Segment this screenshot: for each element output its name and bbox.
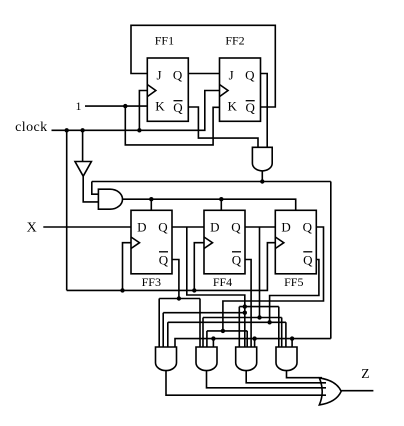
- junction dot: enable B: [211, 336, 215, 340]
- junction dot: 1-line tap: [123, 104, 127, 108]
- wire: clock to inverter input: [82, 130, 84, 161]
- wire: clock rail riser FF3: [123, 243, 132, 291]
- wire: gate D output to OR: [287, 370, 323, 377]
- AND gate U1 (clock gating, horizontal): [98, 189, 122, 209]
- clock edge triangle FF4: [204, 237, 213, 249]
- wire: FF5.Q row to gates B,C: [207, 331, 247, 347]
- wire: AND U1 output gated-clock row to FF3/FF4/FF5 tops: [123, 199, 296, 210]
- wire: clock rail under D flip-flops: [67, 243, 276, 291]
- svg-text:FF4: FF4: [213, 275, 232, 289]
- wire: FF4.Q tap down to row: [259, 227, 261, 318]
- svg-text:1: 1: [76, 99, 82, 113]
- svg-text:FF1: FF1: [155, 34, 174, 48]
- svg-text:K: K: [228, 98, 238, 113]
- wire: FF4.Qbar down to gate C: [245, 260, 251, 348]
- AND gate C (output logic): [236, 347, 257, 371]
- inverter (clock): [75, 162, 91, 177]
- wire: right trunk from U2 output row down: [330, 182, 332, 339]
- svg-text:X: X: [27, 221, 37, 236]
- junction dot: clock rail FF4: [192, 288, 196, 292]
- junction dot: enable C: [252, 336, 256, 340]
- wire: gate C output to OR: [246, 370, 326, 382]
- wire: clock drop to clock rail: [66, 130, 68, 290]
- svg-text:Q: Q: [231, 220, 241, 235]
- svg-text:Q: Q: [303, 220, 313, 235]
- wire: clock rail riser FF4: [194, 243, 204, 291]
- svg-text:D: D: [281, 220, 290, 235]
- svg-text:Q: Q: [158, 220, 168, 235]
- svg-text:K: K: [155, 98, 165, 113]
- wire: constant 1 to FF2.K: [125, 106, 219, 145]
- wire: FF4.Q row to gates B,D: [203, 318, 282, 348]
- junction dot: clock rail FF3: [120, 288, 124, 292]
- svg-text:Q: Q: [159, 253, 169, 268]
- junction dot: clock tap FF1: [137, 128, 141, 132]
- wire: FF5.Qbar reroute down: [270, 260, 319, 323]
- wire: FF5.Qbar row to gates A,D: [168, 322, 286, 347]
- wire: constant 1 to FF1.K: [85, 105, 147, 107]
- AND gate B (output logic): [196, 347, 217, 371]
- wire: AND U2 output distribution row: [92, 171, 331, 194]
- junction dot: gated clock FF4: [219, 197, 223, 201]
- wire: gate A output to OR: [166, 370, 326, 395]
- wire: FF3.Q to FF4.D: [172, 226, 204, 228]
- svg-text:Q: Q: [173, 68, 183, 83]
- junction dot: enable D: [290, 336, 294, 340]
- clock edge triangle FF5: [275, 237, 284, 249]
- junction dot: gated clock FF3: [149, 197, 153, 201]
- wire: FF2.Q to AND U2 input: [261, 74, 268, 148]
- AND gate U2 (state decode, vertical): [252, 147, 272, 171]
- svg-text:FF5: FF5: [284, 275, 303, 289]
- junction dot: FF3.Qbar fan: [177, 296, 181, 300]
- flip-flop FF4 box: [204, 210, 245, 273]
- wire: X input to FF3.D: [43, 226, 131, 228]
- junction dot: row S: [243, 311, 247, 315]
- svg-text:Q: Q: [303, 253, 313, 268]
- junction dot: FF5.Q row: [221, 329, 225, 333]
- svg-text:Q: Q: [173, 100, 183, 115]
- wire: row Q to gates C,D: [239, 307, 278, 347]
- junction dot: clock tap A: [65, 128, 69, 132]
- junction dot: U2 output: [260, 179, 264, 183]
- wire: FF5.Q down and left (row P): [223, 227, 324, 331]
- svg-text:clock: clock: [15, 120, 47, 135]
- wire: clock riser to FF1 clock: [139, 91, 147, 131]
- wire: OR output Z: [341, 390, 373, 392]
- junction dot: clock tap B: [80, 128, 84, 132]
- svg-text:D: D: [210, 220, 219, 235]
- wire: enable row to output AND gates: [175, 339, 331, 347]
- junction dot: row Q: [243, 304, 247, 308]
- wire: inverter output to AND U1 input: [83, 176, 98, 202]
- flip-flop FF3 box: [131, 210, 172, 273]
- clock edge triangle FF2: [220, 85, 229, 97]
- svg-text:Q: Q: [232, 253, 242, 268]
- wire: gate B output to OR: [207, 370, 327, 387]
- svg-text:Z: Z: [361, 366, 369, 381]
- wire: FF4.Q to FF5.D: [245, 226, 275, 228]
- wire: FF3.Qbar down to fan row: [172, 260, 179, 299]
- flip-flop FF1 box: [147, 58, 188, 121]
- wire: row S to gate A input 2: [163, 313, 245, 347]
- wire: clock input line: [52, 91, 220, 131]
- svg-text:J: J: [229, 68, 234, 83]
- svg-text:D: D: [137, 220, 146, 235]
- junction dot: FF4.Q row: [257, 315, 261, 319]
- junction dot: FF5.Qbar row: [267, 320, 271, 324]
- wire: FF1.Q to FF2.J: [188, 73, 219, 75]
- svg-text:J: J: [156, 68, 161, 83]
- AND gate A (output logic): [156, 347, 177, 371]
- flip-flop FF5 box: [275, 210, 316, 273]
- svg-text:Q: Q: [245, 68, 255, 83]
- wire: FF3.Q tap down and over to gate C riser: [187, 227, 245, 347]
- clock edge triangle FF3: [131, 237, 140, 249]
- OR gate (output Z): [319, 378, 341, 405]
- svg-text:FF2: FF2: [225, 34, 244, 48]
- AND gate D (output logic): [276, 347, 297, 371]
- flip-flop FF2 box: [220, 58, 261, 121]
- clock edge triangle FF1: [147, 85, 156, 97]
- wire: FF1.Qbar to AND U2 input: [188, 107, 258, 147]
- svg-text:FF3: FF3: [142, 275, 161, 289]
- wire: FF3.Qbar fan row to gates A,B: [159, 299, 200, 348]
- svg-text:Q: Q: [246, 100, 256, 115]
- wire: FF2.Qbar feedback to FF1.J (top loop): [131, 25, 275, 107]
